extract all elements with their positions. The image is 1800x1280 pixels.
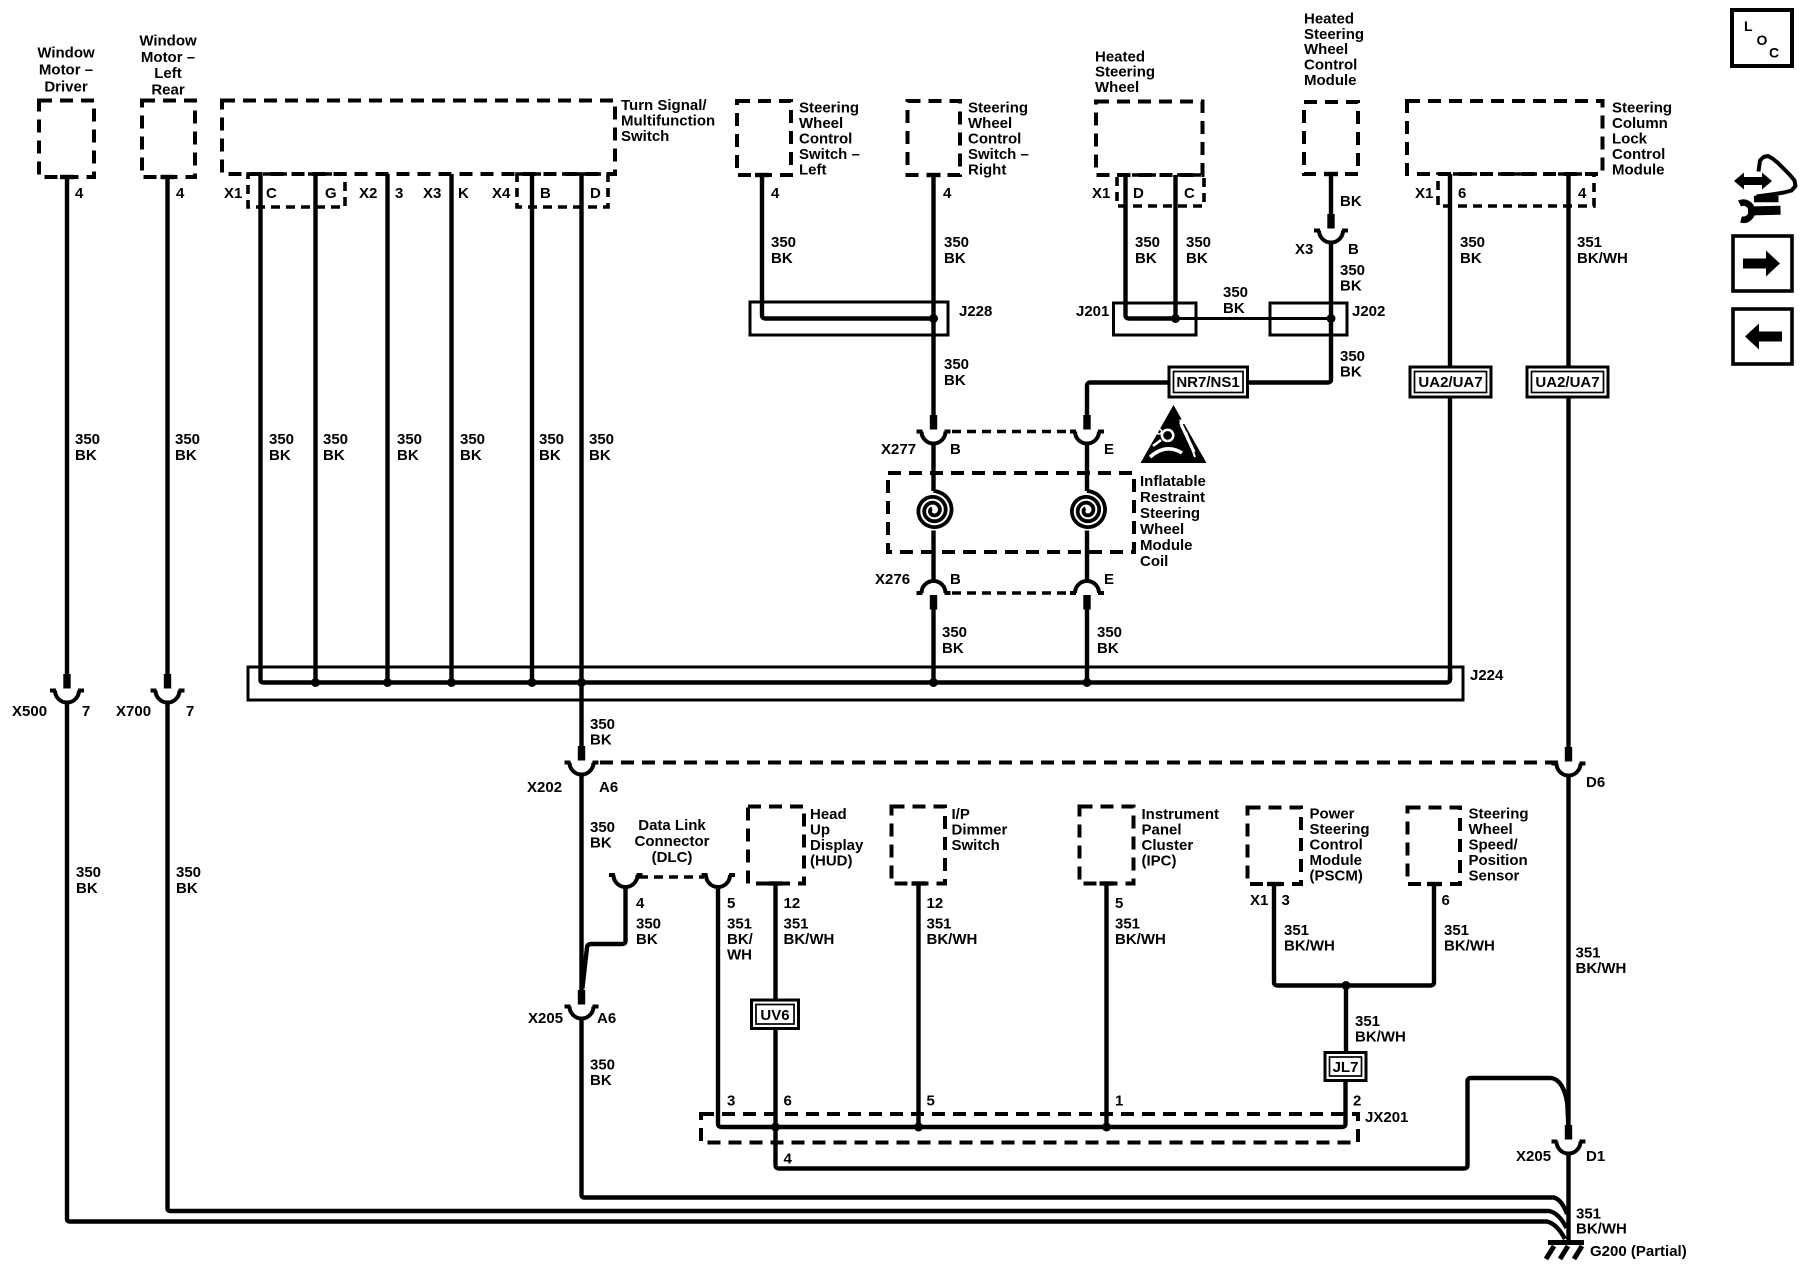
junction J224 coil E — [1083, 678, 1092, 687]
wire label 351 BK/WH — [927, 916, 978, 949]
dashed line X202 to D6 — [600, 761, 1560, 765]
turn signal multifunction switch label — [621, 97, 715, 145]
airbag warning triangle — [1141, 405, 1207, 463]
svg-text:350: 350 — [175, 431, 200, 448]
right arrow legend box — [1733, 236, 1792, 291]
junction J224 G — [311, 678, 320, 687]
svg-text:JL7: JL7 — [1333, 1059, 1359, 1076]
svg-text:BK: BK — [590, 835, 612, 852]
svg-text:Up: Up — [810, 822, 830, 839]
svg-text:351: 351 — [927, 916, 952, 933]
left arrow legend box — [1733, 309, 1792, 364]
svg-text:350: 350 — [589, 431, 614, 448]
svg-text:350: 350 — [1340, 348, 1365, 365]
svg-text:BK: BK — [1340, 278, 1362, 295]
wire HSWCM to X3 — [1329, 174, 1333, 214]
wire junction to JL7 — [1344, 986, 1348, 1053]
wire label 350 BK — [1135, 234, 1160, 267]
svg-text:1: 1 — [1115, 1093, 1123, 1110]
svg-text:C: C — [1184, 185, 1195, 202]
svg-text:Inflatable: Inflatable — [1140, 473, 1206, 490]
wire UA2/UA7 right to D6 — [1566, 397, 1570, 747]
svg-text:B: B — [950, 571, 961, 588]
I/P dimmer switch box — [892, 807, 946, 886]
svg-text:4: 4 — [784, 1151, 793, 1168]
svg-text:BK/WH: BK/WH — [1576, 960, 1627, 977]
junction J224 B — [528, 678, 537, 687]
SCLCM pin box — [1438, 174, 1594, 206]
svg-text:4: 4 — [636, 895, 645, 912]
svg-text:Rear: Rear — [151, 82, 185, 99]
wire HSW pin D to J201 — [1126, 175, 1176, 319]
svg-text:X276: X276 — [875, 571, 910, 588]
svg-text:JX201: JX201 — [1365, 1109, 1408, 1126]
svg-text:D: D — [1133, 185, 1144, 202]
svg-text:350: 350 — [590, 819, 615, 836]
svg-text:D: D — [590, 185, 601, 202]
svg-text:Cluster: Cluster — [1142, 837, 1194, 854]
steering column lock control module label — [1612, 100, 1672, 179]
wire X277 E to coil — [1085, 443, 1089, 491]
splice J201 box — [1076, 303, 1196, 335]
diagnostic sketch icon — [1734, 156, 1796, 220]
svg-text:X4: X4 — [492, 185, 511, 202]
svg-text:Coil: Coil — [1140, 553, 1168, 570]
wire turn signal pin 3 to J224 bus — [385, 174, 389, 683]
connector X700 — [116, 674, 194, 720]
head up display label — [810, 806, 864, 870]
steering wheel control switch left label — [799, 100, 860, 179]
power steering control module label — [1310, 806, 1370, 885]
wire label 350 BK — [944, 234, 969, 267]
window motor driver box — [39, 101, 94, 180]
heated steering wheel control module box — [1304, 102, 1358, 176]
svg-text:6: 6 — [1442, 892, 1450, 909]
coil B spiral — [918, 491, 951, 527]
svg-text:351: 351 — [1577, 234, 1602, 251]
svg-text:12: 12 — [927, 895, 944, 912]
svg-text:BK: BK — [944, 372, 966, 389]
svg-text:Module: Module — [1140, 537, 1193, 554]
fuse block UA2/UA7 left — [1410, 367, 1491, 397]
svg-text:X3: X3 — [1295, 241, 1313, 258]
svg-text:BK: BK — [76, 880, 98, 897]
wire turn signal pin K to J224 bus — [449, 174, 453, 683]
svg-text:4: 4 — [176, 185, 185, 202]
turn signal pin box C G — [248, 174, 345, 207]
wire label 350 BK above X202 — [590, 716, 615, 749]
svg-text:351: 351 — [784, 916, 809, 933]
svg-text:J201: J201 — [1076, 303, 1109, 320]
junction in J202 — [1327, 314, 1336, 323]
turn signal multifunction switch box — [222, 101, 615, 175]
svg-text:Control: Control — [968, 131, 1021, 148]
svg-text:Window: Window — [139, 33, 197, 50]
svg-text:X1: X1 — [1092, 185, 1110, 202]
svg-text:350: 350 — [1223, 284, 1248, 301]
wire label 350 BK — [269, 431, 294, 464]
svg-text:4: 4 — [943, 185, 952, 202]
svg-text:5: 5 — [727, 895, 735, 912]
svg-text:5: 5 — [1115, 895, 1123, 912]
fuse block JL7 — [1325, 1053, 1366, 1081]
wire X202 to X205 — [579, 775, 583, 991]
svg-text:Instrument: Instrument — [1142, 806, 1220, 823]
svg-text:BK/WH: BK/WH — [927, 931, 978, 948]
inflatable restraint coil box — [888, 473, 1134, 552]
wire DLC pin 5 to JX201 bus — [718, 887, 1346, 1127]
svg-text:(PSCM): (PSCM) — [1310, 868, 1363, 885]
fuse block UA2/UA7 right — [1527, 367, 1608, 397]
svg-text:Speed/: Speed/ — [1469, 837, 1519, 854]
svg-text:BK/: BK/ — [727, 931, 754, 948]
svg-text:BK/WH: BK/WH — [1115, 931, 1166, 948]
ground G200 symbol — [1546, 1243, 1584, 1260]
wire label 351 BK/WH — [1355, 1013, 1406, 1046]
svg-text:BK: BK — [771, 250, 793, 267]
turn signal pin box B D — [517, 174, 608, 207]
dashed link X276 B to E — [952, 591, 1066, 595]
heated steering wheel box — [1096, 102, 1203, 176]
svg-text:351: 351 — [1576, 945, 1601, 962]
svg-text:Window: Window — [37, 45, 95, 62]
svg-text:BK: BK — [176, 880, 198, 897]
svg-text:350: 350 — [176, 864, 201, 881]
svg-text:WH: WH — [727, 947, 752, 964]
inflatable restraint coil label — [1140, 473, 1206, 570]
connector X500 — [12, 674, 90, 720]
svg-text:X500: X500 — [12, 703, 47, 720]
svg-text:Lock: Lock — [1612, 131, 1648, 148]
wire coil E to X276 — [1085, 531, 1089, 582]
wire X500 to ground bus — [67, 703, 1565, 1240]
svg-text:E: E — [1104, 441, 1114, 458]
svg-text:Wheel: Wheel — [1095, 79, 1139, 96]
splice J202 box — [1270, 303, 1385, 335]
svg-text:Wheel: Wheel — [968, 115, 1012, 132]
svg-text:C: C — [1769, 45, 1779, 61]
connector D6 — [1552, 747, 1606, 791]
svg-text:(DLC): (DLC) — [652, 849, 693, 866]
svg-text:7: 7 — [186, 703, 194, 720]
window motor left rear box — [142, 101, 195, 180]
wire X205 to ground bus — [582, 1019, 1568, 1215]
wire X276 B to J224 bus — [931, 610, 935, 683]
svg-text:350: 350 — [636, 916, 661, 933]
svg-text:K: K — [458, 185, 469, 202]
steering wheel control switch right label — [968, 100, 1029, 179]
wire IPC to JX201 bus — [1104, 884, 1108, 1128]
wire NR7/NS1 to X277 pin E — [1087, 383, 1169, 416]
svg-text:351: 351 — [1444, 922, 1469, 939]
svg-text:Power: Power — [1310, 806, 1355, 823]
svg-text:BK: BK — [1186, 250, 1208, 267]
wire SCLCM pin 6 to UA2/UA7 — [1448, 174, 1452, 367]
wire SWCS right through J228 to X277 — [931, 175, 935, 415]
wire D6 to D1 — [1566, 776, 1570, 1126]
steering wheel speed position sensor box — [1408, 808, 1461, 887]
svg-text:Wheel: Wheel — [1140, 521, 1184, 538]
svg-text:351: 351 — [727, 916, 752, 933]
svg-text:Connector: Connector — [635, 833, 710, 850]
wire label 350 BK — [1460, 234, 1485, 267]
svg-text:Head: Head — [810, 806, 847, 823]
wire label 350 BK — [1186, 234, 1211, 267]
svg-text:351: 351 — [1115, 916, 1140, 933]
svg-text:Left: Left — [154, 65, 182, 82]
junction J224 coil B — [929, 678, 938, 687]
svg-text:2: 2 — [1353, 1093, 1361, 1110]
svg-text:Column: Column — [1612, 115, 1668, 132]
connector X277 pin E — [1070, 415, 1114, 458]
wire label 351 BK/WH — [784, 916, 835, 949]
junction J224 D — [577, 678, 586, 687]
svg-text:BK/WH: BK/WH — [1355, 1029, 1406, 1046]
svg-text:350: 350 — [944, 234, 969, 251]
svg-text:J228: J228 — [959, 303, 992, 320]
instrument panel cluster box — [1080, 807, 1134, 886]
svg-text:X205: X205 — [1516, 1148, 1551, 1165]
heated steering wheel control module label — [1304, 10, 1364, 89]
svg-text:BK: BK — [590, 732, 612, 749]
svg-text:BK: BK — [75, 447, 97, 464]
svg-text:Switch –: Switch – — [968, 146, 1029, 163]
svg-text:Display: Display — [810, 837, 864, 854]
svg-text:Control: Control — [799, 131, 852, 148]
instrument panel cluster label — [1142, 806, 1220, 870]
svg-text:X202: X202 — [527, 779, 562, 796]
svg-text:350: 350 — [76, 864, 101, 881]
svg-text:351: 351 — [1355, 1013, 1380, 1030]
wire J201 to J202 — [1176, 317, 1332, 320]
wire HUD to UV6 — [773, 884, 777, 1001]
svg-text:BK: BK — [1223, 300, 1245, 317]
wire SWCS left to J228 — [762, 175, 934, 319]
svg-text:Driver: Driver — [44, 79, 88, 96]
svg-text:Panel: Panel — [1142, 822, 1182, 839]
wire label 350 BK — [75, 431, 100, 464]
svg-text:E: E — [1104, 571, 1114, 588]
data link connector label — [635, 817, 710, 866]
svg-text:6: 6 — [784, 1093, 792, 1110]
wire label 350 BK — [1223, 284, 1248, 317]
wire label 350 BK — [1097, 624, 1122, 657]
LOC legend box — [1732, 10, 1792, 66]
splice pack JX201 dashed box — [701, 1109, 1408, 1143]
svg-text:Wheel: Wheel — [1469, 821, 1513, 838]
svg-text:BK/WH: BK/WH — [1576, 1221, 1627, 1238]
svg-text:3: 3 — [395, 185, 403, 202]
wire X276 E to J224 bus — [1085, 610, 1089, 683]
svg-text:BK: BK — [539, 447, 561, 464]
svg-text:G: G — [325, 185, 337, 202]
svg-text:350: 350 — [460, 431, 485, 448]
fuse block NR7/NS1 — [1169, 367, 1248, 397]
svg-text:350: 350 — [1340, 262, 1365, 279]
splice pack J224 box — [248, 667, 1504, 700]
wire label 351 BK/ WH — [727, 916, 754, 964]
window motor driver label — [37, 45, 95, 96]
svg-text:Restraint: Restraint — [1140, 489, 1205, 506]
wire SCLCM pin 4 to UA2/UA7 — [1566, 174, 1570, 367]
svg-text:Steering: Steering — [1612, 100, 1672, 117]
svg-text:UA2/UA7: UA2/UA7 — [1535, 374, 1599, 391]
wire label 350 BK — [771, 234, 796, 267]
wire label 350 BK — [175, 431, 200, 464]
wire UV6 to JX201 bus and pin 4 run — [776, 1029, 1569, 1169]
wire turn signal pin D to X202 — [579, 174, 583, 746]
svg-text:A6: A6 — [599, 779, 618, 796]
svg-text:Steering: Steering — [1140, 505, 1200, 522]
steering column lock control module box — [1407, 101, 1603, 174]
svg-text:BK: BK — [589, 447, 611, 464]
wire window motor left rear to X700 — [165, 177, 169, 674]
svg-text:Left: Left — [799, 162, 827, 179]
svg-text:X1: X1 — [224, 185, 242, 202]
I/P dimmer switch label — [952, 806, 1008, 854]
svg-text:BK: BK — [1097, 640, 1119, 657]
svg-text:BK: BK — [460, 447, 482, 464]
wire DLC pin 4 to X205 — [582, 887, 625, 989]
svg-text:350: 350 — [75, 431, 100, 448]
svg-text:Motor –: Motor – — [141, 49, 195, 66]
svg-text:Turn Signal/: Turn Signal/ — [621, 97, 707, 114]
svg-text:BK/WH: BK/WH — [1284, 938, 1335, 955]
connector D1 — [1516, 1125, 1605, 1165]
svg-text:Right: Right — [968, 162, 1006, 179]
svg-text:UA2/UA7: UA2/UA7 — [1418, 374, 1482, 391]
svg-text:X2: X2 — [359, 185, 377, 202]
junction JX201 HUD — [771, 1123, 780, 1132]
svg-text:12: 12 — [784, 895, 801, 912]
wire label 350 BK below J202 — [1340, 348, 1365, 381]
svg-text:4: 4 — [771, 185, 780, 202]
svg-text:350: 350 — [1460, 234, 1485, 251]
svg-text:350: 350 — [771, 234, 796, 251]
wire label 350 BK — [1340, 262, 1365, 295]
svg-text:Control: Control — [1310, 837, 1363, 854]
svg-text:BK: BK — [590, 1072, 612, 1089]
svg-text:BK: BK — [269, 447, 291, 464]
wire label 351 BK/WH — [1284, 922, 1335, 955]
svg-text:D6: D6 — [1586, 774, 1605, 791]
wire turn signal pin G to J224 bus — [313, 174, 317, 683]
connector X3 — [1295, 214, 1359, 258]
svg-text:UV6: UV6 — [760, 1007, 789, 1024]
wire turn signal pin B to J224 bus — [530, 174, 534, 683]
svg-text:Module: Module — [1612, 162, 1665, 179]
svg-text:350: 350 — [539, 431, 564, 448]
svg-text:350: 350 — [1135, 234, 1160, 251]
svg-text:Steering: Steering — [1095, 64, 1155, 81]
heated steering wheel pin box D C — [1117, 175, 1204, 206]
DLC terminal pin 4 — [609, 875, 643, 887]
wire PSCM pin 3 and SWSPS pin 6 junction — [1274, 884, 1434, 986]
svg-text:X205: X205 — [528, 1010, 563, 1027]
svg-text:350: 350 — [269, 431, 294, 448]
svg-text:Wheel: Wheel — [1304, 41, 1348, 58]
wire label 350 BK — [397, 431, 422, 464]
svg-text:Switch –: Switch – — [799, 146, 860, 163]
wire label 350 BK — [323, 431, 348, 464]
svg-text:350: 350 — [590, 716, 615, 733]
svg-text:4: 4 — [75, 185, 84, 202]
svg-text:A6: A6 — [597, 1010, 616, 1027]
wire label 351 BK/WH — [1444, 922, 1495, 955]
power steering control module box — [1248, 808, 1302, 887]
wire label 351 BK/WH — [1576, 1206, 1627, 1238]
svg-text:B: B — [540, 185, 551, 202]
svg-text:Multifunction: Multifunction — [621, 113, 715, 130]
svg-text:B: B — [950, 441, 961, 458]
svg-text:Steering: Steering — [799, 100, 859, 117]
svg-text:X277: X277 — [881, 441, 916, 458]
junction in J201 — [1171, 314, 1180, 323]
svg-text:Module: Module — [1310, 852, 1363, 869]
steering wheel control switch right box — [908, 101, 961, 177]
svg-text:BK: BK — [175, 447, 197, 464]
wire UA2/UA7 left to J224 bus — [1448, 397, 1452, 680]
svg-text:7: 7 — [82, 703, 90, 720]
svg-text:Position: Position — [1469, 852, 1528, 869]
svg-text:X3: X3 — [423, 185, 441, 202]
heated steering wheel label — [1095, 49, 1155, 97]
svg-text:Data Link: Data Link — [638, 817, 706, 834]
svg-text:3: 3 — [727, 1093, 735, 1110]
wire label 350 BK — [590, 819, 615, 852]
junction J224 K — [447, 678, 456, 687]
svg-text:6: 6 — [1458, 185, 1466, 202]
svg-text:Motor –: Motor – — [39, 62, 93, 79]
connector X205 — [528, 990, 616, 1027]
DLC terminal pin 5 — [702, 875, 736, 887]
junction JX201 IPC — [1102, 1123, 1111, 1132]
svg-text:350: 350 — [942, 624, 967, 641]
wire window motor driver to X500 — [65, 177, 69, 674]
svg-text:BK/WH: BK/WH — [1577, 250, 1628, 267]
steering wheel control switch left box — [737, 101, 791, 177]
junction PSCM SWSPS — [1342, 981, 1351, 990]
svg-text:3: 3 — [1282, 892, 1290, 909]
svg-text:350: 350 — [397, 431, 422, 448]
svg-text:4: 4 — [1578, 185, 1587, 202]
wire X3 through J202 to NR7/NS1 — [1248, 243, 1332, 383]
svg-text:BK: BK — [397, 447, 419, 464]
svg-text:(HUD): (HUD) — [810, 853, 853, 870]
svg-text:D1: D1 — [1586, 1148, 1605, 1165]
svg-text:BK: BK — [636, 931, 658, 948]
svg-text:BK: BK — [942, 640, 964, 657]
svg-text:350: 350 — [1097, 624, 1122, 641]
svg-text:NR7/NS1: NR7/NS1 — [1176, 374, 1239, 391]
wire label 351 BK/WH — [1577, 234, 1628, 267]
junction in J228 — [929, 314, 938, 323]
svg-text:BK: BK — [1460, 250, 1482, 267]
svg-text:BK: BK — [1135, 250, 1157, 267]
wire label 350 BK — [539, 431, 564, 464]
svg-text:350: 350 — [1186, 234, 1211, 251]
svg-text:Sensor: Sensor — [1469, 868, 1520, 885]
wire label 350 BK — [460, 431, 485, 464]
wire label 350 BK — [942, 624, 967, 657]
svg-text:Steering: Steering — [1310, 821, 1370, 838]
svg-text:BK/WH: BK/WH — [1444, 938, 1495, 955]
wire dimmer to JX201 bus — [916, 884, 920, 1128]
svg-text:Steering: Steering — [1469, 806, 1529, 823]
wire label 350 BK below J228 — [944, 356, 969, 389]
svg-text:BK: BK — [944, 250, 966, 267]
wire X277 B to coil — [931, 443, 935, 491]
